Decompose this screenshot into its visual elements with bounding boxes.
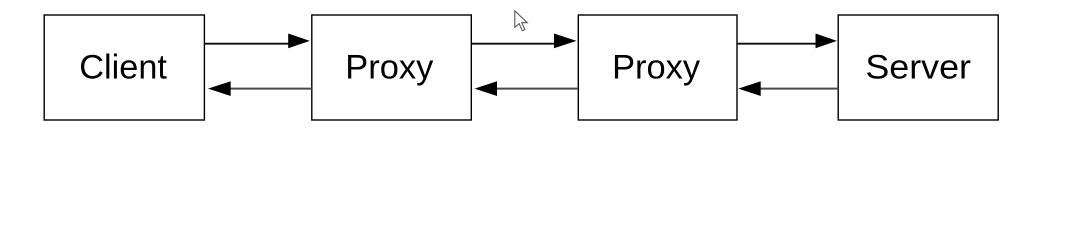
wire bottom Server to Proxy2 (761, 88, 839, 90)
box Proxy 1 (312, 15, 472, 120)
box Proxy 2 (578, 15, 737, 120)
svg-text:Proxy: Proxy (345, 49, 434, 87)
wire bottom Proxy2 to Proxy1 (497, 88, 579, 90)
wire bottom Proxy1 to Client (230, 88, 312, 90)
wire top Proxy1 to Proxy2 (471, 43, 557, 45)
svg-text:Server: Server (865, 49, 971, 87)
wire top Client to Proxy1 (204, 43, 291, 45)
arrowhead right Proxy2 to Server (816, 34, 837, 49)
svg-text:Proxy: Proxy (612, 49, 701, 87)
svg-text:Client: Client (79, 49, 167, 87)
arrowhead left Proxy2 to Proxy1 (475, 81, 497, 96)
box Server (838, 15, 998, 120)
arrowhead left Server to Proxy2 (738, 81, 760, 96)
arrowhead right Client to Proxy1 (288, 34, 310, 49)
arrowhead left Proxy1 to Client (208, 81, 231, 96)
mouse cursor (515, 11, 527, 31)
wire top Proxy2 to Server (737, 43, 818, 45)
arrowhead right Proxy1 to Proxy2 (554, 34, 577, 49)
box Client (44, 15, 204, 120)
